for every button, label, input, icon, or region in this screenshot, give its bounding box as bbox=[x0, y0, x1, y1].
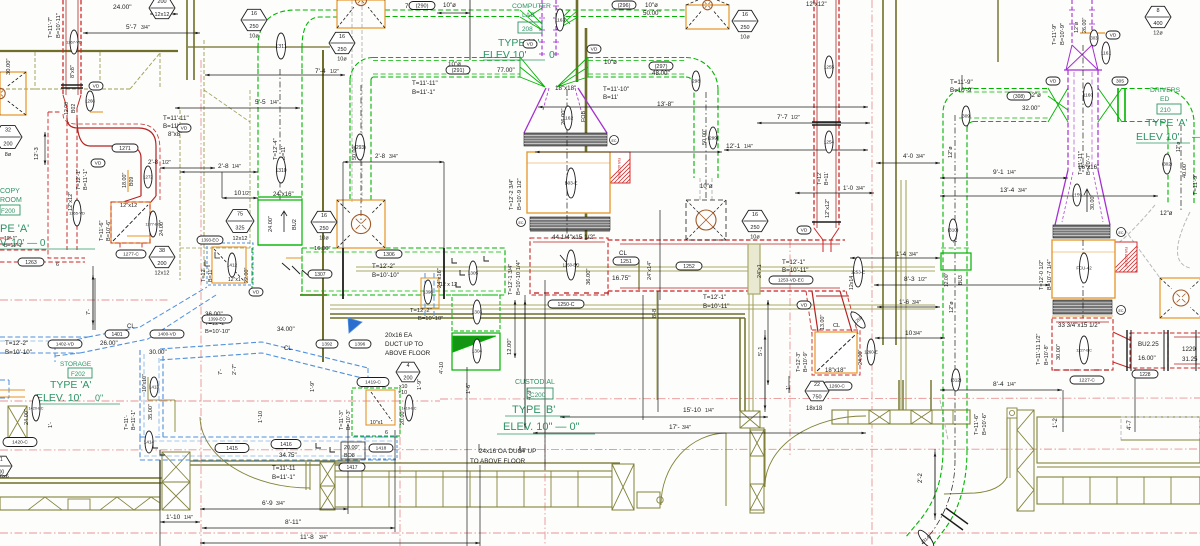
svg-text:1393-EO: 1393-EO bbox=[201, 238, 219, 243]
svg-text:1303: 1303 bbox=[472, 310, 483, 315]
jamb hatch top bbox=[740, 411, 760, 428]
oval 1418 bbox=[369, 444, 393, 452]
hex 16 250 e bbox=[742, 210, 768, 240]
purple funnel right-unit L bbox=[1055, 170, 1068, 225]
svg-text:1'-10: 1'-10 bbox=[258, 411, 264, 423]
svg-text:34.75": 34.75" bbox=[279, 452, 297, 459]
svg-text:B=11'-1": B=11'-1" bbox=[131, 410, 137, 430]
svg-text:TYPE 'A': TYPE 'A' bbox=[50, 379, 91, 391]
svg-text:16.00": 16.00" bbox=[314, 246, 331, 252]
svg-text:12x12: 12x12 bbox=[233, 236, 248, 242]
svg-text:24"x14": 24"x14" bbox=[647, 261, 653, 280]
oval VD e bbox=[587, 45, 601, 53]
oval 1227-C bbox=[1070, 376, 1104, 384]
blue stub left bbox=[0, 379, 9, 381]
duct centerline bbox=[1082, 45, 1084, 172]
svg-text:B=10'-9": B=10'-9" bbox=[950, 87, 974, 94]
oval 1250b bbox=[848, 309, 869, 331]
hatch tri3 bbox=[134, 497, 160, 510]
svg-text:1/2": 1/2" bbox=[918, 277, 927, 283]
interior wall bbox=[179, 110, 181, 280]
svg-text:EC: EC bbox=[612, 139, 617, 143]
svg-text:750: 750 bbox=[812, 394, 821, 400]
svg-text:1/4": 1/4" bbox=[744, 144, 753, 150]
oval 1277-EO bbox=[145, 211, 160, 237]
red taper bbox=[63, 95, 81, 108]
svg-text:1267-VD: 1267-VD bbox=[66, 39, 82, 44]
svg-text:13.00": 13.00" bbox=[820, 315, 826, 330]
svg-text:10ø: 10ø bbox=[740, 35, 750, 41]
green box 1419 bbox=[352, 388, 400, 436]
EC circle bbox=[610, 136, 619, 145]
svg-text:7'-: 7'- bbox=[218, 369, 224, 375]
door jamb bbox=[637, 492, 660, 508]
dim vert bbox=[767, 300, 769, 385]
oval 1253-E bbox=[851, 257, 865, 287]
svg-text:12"ø: 12"ø bbox=[1074, 21, 1080, 33]
green elbow far right bbox=[1160, 88, 1194, 122]
diffuser mid-left bbox=[337, 200, 385, 248]
svg-text:STORAGE: STORAGE bbox=[60, 361, 91, 368]
svg-text:ELEV 10': ELEV 10' bbox=[1136, 131, 1179, 143]
svg-text:30.00": 30.00" bbox=[6, 58, 12, 75]
svg-text:12"ø: 12"ø bbox=[1160, 211, 1173, 217]
svg-text:1/2": 1/2" bbox=[162, 160, 171, 166]
wall jog down bbox=[898, 380, 900, 410]
svg-text:6: 6 bbox=[385, 430, 388, 436]
svg-text:16: 16 bbox=[752, 212, 758, 218]
svg-text:24.00": 24.00" bbox=[113, 4, 132, 11]
orange box 18x18 bbox=[815, 332, 857, 373]
svg-text:250: 250 bbox=[319, 226, 328, 232]
svg-text:1277-C: 1277-C bbox=[123, 252, 139, 258]
svg-text:16: 16 bbox=[321, 213, 327, 219]
svg-text:BU3: BU3 bbox=[958, 275, 964, 285]
blue diagonal up bbox=[88, 327, 140, 337]
svg-text:CL: CL bbox=[833, 323, 840, 329]
svg-text:B=10'-11": B=10'-11" bbox=[782, 267, 808, 274]
purple funnel left bbox=[524, 88, 546, 133]
svg-text:15'-10: 15'-10 bbox=[683, 407, 701, 414]
svg-text:T=12': T=12' bbox=[817, 172, 823, 185]
dim 13-4 3/4 bbox=[940, 195, 1158, 197]
red stub left edge bbox=[0, 238, 20, 244]
green plenum box bbox=[302, 248, 505, 295]
wall segment bbox=[300, 294, 327, 296]
centerline bbox=[0, 449, 1200, 450]
dim 5-1 1/2 bbox=[764, 335, 766, 410]
svg-text:VD: VD bbox=[801, 303, 808, 309]
oval 1277-C bbox=[116, 250, 146, 258]
oval 1159 bbox=[1072, 184, 1082, 206]
oval 1260-C bbox=[822, 382, 852, 390]
svg-text:B=10'-11": B=10'-11" bbox=[703, 303, 729, 310]
green fan top2 bbox=[520, 10, 578, 30]
oval 1160 bbox=[1083, 83, 1094, 107]
oval 1303 bbox=[472, 300, 483, 324]
svg-text:1250-C: 1250-C bbox=[557, 302, 574, 308]
red box 1250-EO bbox=[530, 238, 608, 295]
svg-text:1163: 1163 bbox=[555, 18, 566, 24]
red duct vertical left bbox=[62, 0, 64, 95]
svg-text:1161: 1161 bbox=[1101, 51, 1112, 57]
centerline vertical bbox=[871, 0, 873, 546]
svg-text:3/4": 3/4" bbox=[1018, 188, 1027, 194]
svg-text:ELEV 10': ELEV 10' bbox=[483, 49, 526, 61]
svg-text:VD: VD bbox=[1110, 33, 1117, 39]
svg-text:8'-4: 8'-4 bbox=[993, 381, 1004, 388]
red hatch box fan left bbox=[606, 152, 693, 183]
door post hatch bbox=[320, 462, 335, 486]
purple funnel right bbox=[578, 88, 607, 133]
svg-text:T=11'-10": T=11'-10" bbox=[603, 86, 629, 93]
svg-text:1'-9": 1'-9" bbox=[417, 379, 423, 390]
svg-text:B=11': B=11' bbox=[603, 94, 618, 101]
svg-text:1159: 1159 bbox=[1072, 193, 1082, 198]
BU2 box top bbox=[258, 196, 302, 198]
existing duct line 2 bbox=[330, 304, 935, 306]
svg-text:T=12'-1 3/4": T=12'-1 3/4" bbox=[508, 264, 514, 295]
hex 16 250 d bbox=[732, 10, 758, 40]
svg-text:B=10'-10": B=10'-10" bbox=[5, 349, 32, 356]
svg-text:1/4": 1/4" bbox=[184, 515, 193, 521]
oval 290 bbox=[409, 2, 435, 10]
svg-text:8: 8 bbox=[1156, 8, 1159, 14]
dim 1-6 3/4 bbox=[877, 306, 940, 308]
svg-text:17'-: 17'- bbox=[669, 424, 680, 431]
svg-text:50.00": 50.00" bbox=[643, 10, 661, 17]
oval 1254 bbox=[824, 131, 835, 153]
duct centerline bbox=[360, 85, 362, 224]
duct centerline bbox=[279, 69, 281, 245]
oval 1311 bbox=[275, 33, 286, 59]
EC circle bbox=[1117, 306, 1126, 315]
centerline bbox=[0, 400, 440, 402]
wall vertical x323 bbox=[322, 50, 324, 252]
svg-text:8'-8: 8'-8 bbox=[652, 309, 658, 318]
oval VD g bbox=[1046, 77, 1060, 85]
green elbow right-west bbox=[943, 89, 967, 113]
red transition bbox=[814, 228, 839, 240]
svg-text:18x18: 18x18 bbox=[806, 406, 823, 412]
svg-text:(293): (293) bbox=[354, 145, 366, 151]
window band center bbox=[335, 471, 612, 507]
svg-text:T=11'-: T=11'- bbox=[124, 415, 130, 430]
door hinge block bbox=[1007, 408, 1017, 418]
svg-text:44 1/4"x15 1/2": 44 1/4"x15 1/2" bbox=[552, 234, 595, 241]
svg-text:12.00": 12.00" bbox=[507, 338, 513, 355]
oval 1396 bbox=[349, 340, 371, 348]
leader 24x16 OA bbox=[466, 367, 468, 546]
svg-text:3/4": 3/4" bbox=[389, 154, 398, 160]
svg-text:B=10'-8": B=10'-8" bbox=[1044, 344, 1050, 365]
svg-text:VD: VD bbox=[253, 290, 260, 296]
door leaf right bbox=[1006, 418, 1008, 478]
wall vertical x323 lower bbox=[322, 252, 324, 362]
svg-text:T=12': T=12' bbox=[201, 269, 207, 282]
VAV box center bbox=[527, 152, 610, 213]
pier hatch left bbox=[8, 406, 27, 439]
oval 303 bbox=[1090, 30, 1098, 46]
svg-text:1263: 1263 bbox=[25, 260, 37, 266]
svg-text:DUCT UP TO: DUCT UP TO bbox=[385, 341, 423, 348]
red stub bbox=[823, 240, 831, 252]
svg-text:8'-11": 8'-11" bbox=[285, 519, 302, 526]
svg-text:31.25: 31.25 bbox=[1182, 356, 1198, 363]
purple narrow pair right bbox=[1071, 0, 1073, 45]
ghost near green bbox=[940, 400, 948, 440]
svg-text:B=10'-11": B=10'-11" bbox=[56, 13, 62, 38]
svg-text:12"x12: 12"x12 bbox=[120, 203, 137, 209]
svg-text:B=11'-1": B=11'-1" bbox=[412, 89, 435, 96]
svg-text:1162: 1162 bbox=[563, 116, 574, 122]
svg-text:3/4": 3/4" bbox=[319, 535, 328, 541]
svg-text:250: 250 bbox=[337, 47, 346, 53]
svg-text:4'-0: 4'-0 bbox=[903, 153, 914, 160]
oval 1227-EC bbox=[1076, 336, 1092, 364]
oval 1310 bbox=[275, 157, 286, 183]
svg-text:B=10'-6": B=10'-6" bbox=[106, 220, 112, 241]
green duct main run west bbox=[373, 57, 520, 59]
svg-text:B=10'-6": B=10'-6" bbox=[982, 413, 988, 435]
red duct narrow vertical bbox=[66, 108, 68, 250]
EC circle bbox=[517, 218, 526, 227]
dim 8-11 bbox=[202, 527, 395, 529]
svg-text:BU2: BU2 bbox=[292, 219, 298, 230]
hex 75 325 bbox=[226, 210, 254, 242]
svg-text:T=11'-11: T=11'-11 bbox=[272, 465, 296, 472]
svg-text:B=10'-9": B=10'-9" bbox=[1060, 23, 1066, 45]
svg-text:1253-E: 1253-E bbox=[851, 270, 865, 275]
wall x749 bbox=[748, 288, 750, 411]
svg-text:3/4": 3/4" bbox=[916, 154, 925, 160]
green connector bbox=[1117, 88, 1119, 122]
window band lower-left bbox=[0, 497, 160, 510]
oval 310 bbox=[948, 219, 959, 241]
extension bbox=[159, 460, 161, 546]
dim 12.00 vert bbox=[514, 300, 516, 358]
svg-text:0": 0" bbox=[95, 393, 103, 403]
wall custodial north bbox=[330, 313, 745, 315]
red gooseneck inner bbox=[77, 118, 141, 196]
wall custodial east bbox=[739, 318, 741, 411]
jamb hatch bbox=[750, 430, 764, 456]
svg-text:T=11'-3": T=11'-3" bbox=[339, 410, 345, 430]
wall stub bbox=[638, 260, 640, 290]
svg-text:325: 325 bbox=[235, 226, 244, 232]
svg-text:1271: 1271 bbox=[119, 146, 131, 152]
oval 1263 bbox=[18, 258, 44, 266]
svg-text:1228: 1228 bbox=[1139, 372, 1150, 378]
oval 1401 bbox=[105, 330, 129, 338]
svg-text:12.00": 12.00" bbox=[944, 272, 950, 287]
svg-text:EC: EC bbox=[1119, 309, 1124, 313]
wall storage bbox=[147, 377, 149, 400]
svg-text:T=11'-11 1/2": T=11'-11 1/2" bbox=[1036, 334, 1042, 365]
svg-text:1402-VD: 1402-VD bbox=[56, 342, 75, 347]
svg-text:1305: 1305 bbox=[468, 271, 479, 276]
interior wall diagonal bbox=[204, 90, 250, 122]
extension bbox=[479, 465, 481, 546]
svg-text:6: 6 bbox=[56, 262, 59, 268]
pier triangles bbox=[1017, 410, 1034, 511]
svg-text:32: 32 bbox=[5, 127, 11, 133]
BU3 box bbox=[941, 253, 971, 270]
break marks 2 bbox=[282, 263, 310, 277]
svg-text:FAN ACCESS: FAN ACCESS bbox=[1124, 247, 1128, 267]
svg-text:1272: 1272 bbox=[143, 175, 153, 180]
ghost duct bbox=[699, 178, 701, 202]
oval 1272 bbox=[143, 166, 153, 188]
svg-text:DRIVERS: DRIVERS bbox=[1150, 87, 1181, 94]
wall copy room north bbox=[0, 50, 178, 52]
green duct top run bbox=[385, 9, 520, 11]
svg-text:200: 200 bbox=[3, 142, 12, 148]
svg-text:6x6: 6x6 bbox=[0, 474, 9, 480]
svg-text:LAB: LAB bbox=[522, 12, 535, 19]
svg-text:1160: 1160 bbox=[1083, 93, 1094, 99]
ceiling diffuser 10ø bbox=[686, 200, 726, 240]
svg-text:(308): (308) bbox=[1013, 94, 1025, 100]
svg-text:T=11'-11": T=11'-11" bbox=[163, 115, 189, 122]
extension 24x14 bbox=[659, 210, 661, 300]
dim 2-2.5 vertical bbox=[934, 449, 936, 520]
extension 4-9 bbox=[524, 295, 526, 430]
diffuser left wall bbox=[0, 72, 26, 115]
orange box in 1412 bbox=[212, 247, 246, 283]
svg-text:12'-3: 12'-3 bbox=[34, 147, 40, 160]
hook marks blue band bbox=[153, 443, 165, 455]
oval 297 bbox=[649, 62, 673, 70]
oval 299 bbox=[708, 127, 719, 149]
svg-text:12x12: 12x12 bbox=[155, 12, 170, 18]
svg-text:4: 4 bbox=[406, 363, 409, 369]
oval 1267-VD bbox=[66, 30, 82, 54]
svg-text:×10: ×10 bbox=[398, 390, 407, 396]
door leaf bbox=[725, 433, 727, 506]
pale wall pair bbox=[900, 180, 902, 410]
svg-text:2'-8: 2'-8 bbox=[218, 163, 229, 170]
svg-text:1413: 1413 bbox=[149, 385, 159, 390]
svg-text:24"x16": 24"x16" bbox=[273, 192, 294, 198]
oval 1416 bbox=[271, 440, 301, 449]
svg-text:36.00": 36.00" bbox=[586, 268, 592, 285]
svg-text:10ø: 10ø bbox=[249, 34, 259, 40]
svg-text:FCU-42: FCU-42 bbox=[1076, 266, 1092, 271]
wall under blue duct bbox=[166, 460, 360, 462]
dim 7-4 1/2 bbox=[205, 74, 345, 76]
red duct horizontal run bbox=[608, 239, 845, 241]
svg-text:8ø: 8ø bbox=[5, 152, 12, 158]
oval 1266 bbox=[85, 91, 95, 111]
svg-text:1396: 1396 bbox=[355, 342, 366, 348]
svg-text:3/4": 3/4" bbox=[912, 300, 921, 306]
extension bbox=[347, 425, 349, 514]
green duct vertical x694 bbox=[693, 85, 695, 178]
wall jog east bbox=[188, 46, 330, 48]
oval 314 bbox=[915, 527, 938, 546]
oval 1400-VD bbox=[150, 330, 184, 338]
svg-text:12 x 12: 12 x 12 bbox=[440, 282, 457, 288]
dim 5-7 3/4 bbox=[83, 32, 200, 34]
svg-text:18.00": 18.00" bbox=[122, 173, 128, 188]
damper diagonal bbox=[113, 205, 148, 241]
svg-text:309: 309 bbox=[962, 114, 970, 119]
svg-text:10"ø: 10"ø bbox=[645, 2, 658, 9]
hook marks 1412 bbox=[205, 252, 220, 266]
svg-text:VD: VD bbox=[181, 126, 188, 132]
orange box in 1419 bbox=[366, 390, 395, 425]
svg-text:30.00": 30.00" bbox=[1090, 195, 1096, 210]
red gooseneck dashed outline bbox=[63, 114, 160, 200]
svg-text:24.00": 24.00" bbox=[858, 350, 864, 365]
hex 16 250 b bbox=[329, 32, 355, 62]
hex left edge bbox=[0, 456, 12, 476]
svg-text:1/4": 1/4" bbox=[705, 408, 714, 414]
svg-text:210: 210 bbox=[1160, 107, 1171, 114]
svg-text:1307: 1307 bbox=[314, 272, 325, 278]
svg-text:T=11'-6": T=11'-6" bbox=[99, 220, 105, 241]
blue riser x425 bbox=[424, 273, 426, 316]
dim 13-8 bbox=[538, 106, 868, 108]
svg-text:(296): (296) bbox=[618, 3, 631, 9]
svg-text:T=11'-11": T=11'-11" bbox=[1078, 151, 1084, 175]
damper bar bbox=[61, 84, 83, 86]
red transition right bbox=[1113, 332, 1130, 340]
svg-text:BU2.25: BU2.25 bbox=[1138, 341, 1159, 348]
wall line above band bbox=[333, 462, 620, 464]
ghost curve right bbox=[1112, 205, 1155, 248]
blue branch to 1412 bbox=[140, 287, 207, 327]
oval 1306 bbox=[376, 250, 402, 258]
dim 7-3/4 bbox=[92, 275, 94, 325]
svg-text:16.75": 16.75" bbox=[612, 275, 631, 282]
svg-text:3/4": 3/4" bbox=[856, 186, 865, 192]
oval 1413 bbox=[149, 377, 159, 397]
svg-text:1306: 1306 bbox=[383, 252, 395, 258]
svg-text:22: 22 bbox=[814, 382, 820, 388]
svg-text:1254: 1254 bbox=[824, 140, 835, 145]
red box BU2.25 bbox=[1130, 333, 1168, 368]
orange tick bbox=[286, 257, 302, 259]
purple riser pair top-center bbox=[541, 0, 543, 57]
svg-text:T=11'-11": T=11'-11" bbox=[412, 80, 438, 87]
blue jog bbox=[55, 337, 88, 345]
dim 15-10 1/4 bbox=[560, 416, 768, 418]
corner post hatch bbox=[162, 452, 190, 482]
oval 296 bbox=[612, 1, 636, 9]
svg-text:1/4": 1/4" bbox=[270, 100, 279, 106]
duct-up triangle green bbox=[453, 336, 496, 352]
svg-text:T=11'-9": T=11'-9" bbox=[1193, 174, 1199, 195]
svg-text:0: 0 bbox=[549, 49, 555, 61]
svg-text:5'-1: 5'-1 bbox=[758, 347, 764, 357]
svg-text:1'-0: 1'-0 bbox=[843, 185, 854, 192]
blue box 1418 bbox=[365, 437, 397, 459]
svg-text:(291): (291) bbox=[452, 68, 465, 74]
svg-text:1418: 1418 bbox=[376, 446, 387, 452]
svg-text:2'-8: 2'-8 bbox=[375, 153, 386, 160]
svg-text:32.00": 32.00" bbox=[1022, 105, 1040, 112]
BU2 riser box bbox=[258, 200, 302, 245]
door post hatch2 bbox=[320, 486, 335, 510]
svg-text:7'-: 7'- bbox=[86, 309, 92, 315]
svg-text:1310: 1310 bbox=[275, 168, 286, 174]
svg-text:250: 250 bbox=[249, 24, 258, 30]
oval 1417 bbox=[339, 463, 365, 471]
svg-text:1'-6: 1'-6 bbox=[899, 299, 910, 306]
orange accent bbox=[90, 111, 103, 113]
